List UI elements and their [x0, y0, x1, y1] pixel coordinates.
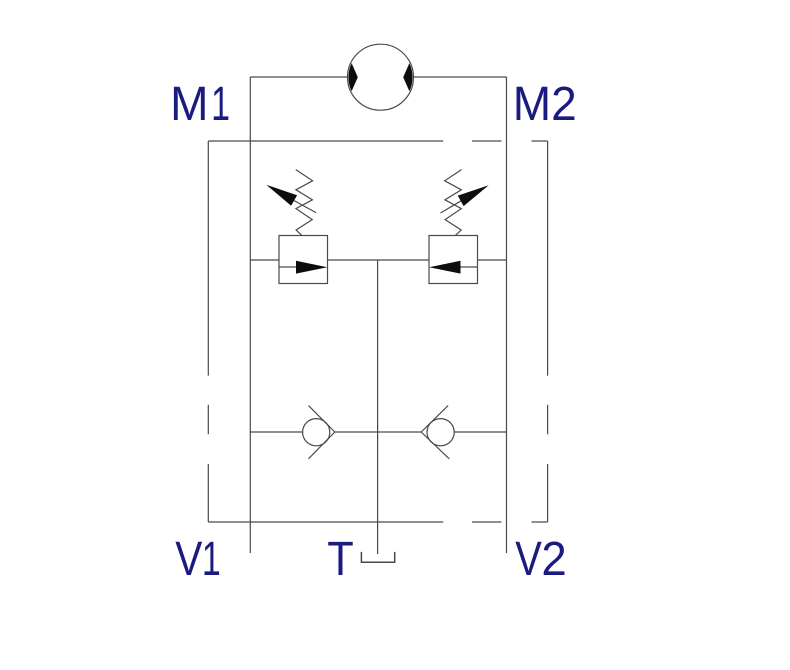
wire: M1 vertical line (M1 to V1) [249, 77, 251, 553]
relief valve RV1 adjustment arrow [266, 185, 316, 213]
wire: check valve line right segment [454, 431, 506, 433]
wire: M2 vertical line (M2 to V2) [506, 77, 508, 553]
wire: relief cross line (M1 line to M2 line through relief valves) [250, 259, 506, 261]
wire: check valve line middle segment [335, 431, 421, 433]
relief valve RV2 [429, 170, 489, 284]
wire: check valve line left segment [250, 431, 302, 433]
wire: top header right (motor to M2 line) [414, 76, 507, 78]
relief valve RV1 [266, 170, 327, 284]
svg-text:2: 2 [541, 531, 566, 586]
relief valve RV2 adjustment arrow [441, 185, 489, 213]
svg-text:T: T [327, 531, 353, 586]
svg-text:1: 1 [211, 76, 230, 130]
motor M (bidirectional hydraulic motor) [348, 44, 414, 110]
check valve CV2 [421, 406, 454, 459]
svg-text:M2: M2 [513, 77, 577, 131]
relief valve RV2 body [429, 236, 478, 284]
svg-text:1: 1 [202, 531, 221, 585]
wire: top header left (M1 line to motor) [250, 76, 347, 78]
check valve CV1 [303, 406, 335, 459]
tank symbol at T port [361, 552, 394, 562]
relief valve RV1 body [279, 236, 328, 284]
port label M1 [170, 76, 230, 131]
relief valve RV1 spring [296, 170, 313, 236]
svg-text:V: V [515, 532, 542, 586]
manifold block outline (dashed enclosure) [208, 141, 547, 522]
port label V2 [515, 531, 566, 586]
port label V1 [175, 531, 221, 586]
relief valve RV2 spring [445, 170, 462, 236]
svg-text:V: V [175, 532, 202, 586]
wire: center tank line (to T port) [377, 260, 379, 554]
svg-text:M: M [170, 77, 208, 131]
